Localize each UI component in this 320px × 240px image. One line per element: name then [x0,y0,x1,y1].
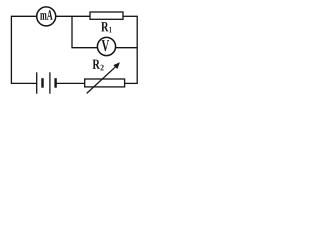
label R2 [93,60,104,71]
battery long plate 2 [49,72,51,93]
wire: bottom-right segment (R2 to right side) [125,82,137,84]
wire: left vertical side [10,16,12,84]
wire: top-middle segment (mA to R1) [56,15,90,17]
wire: voltmeter branch vertical drop from top node [71,16,73,47]
battery short thick plate 1 [41,78,43,88]
battery long plate 1 [36,72,38,93]
resistor R1 [90,12,123,19]
wire: bottom-left segment [11,82,36,84]
battery (two cells) [37,72,56,93]
rheostat R2 [85,79,125,87]
wire: voltmeter branch right horizontal [116,47,138,49]
voltmeter V [97,37,115,55]
wire: voltmeter branch left horizontal [71,47,97,49]
rheostat R2 arrow [87,62,120,93]
wire: top-right segment (R1 to right side) [123,15,137,17]
milliammeter mA [37,7,56,26]
wire: top-left segment [11,15,36,17]
label R1 [101,22,111,32]
battery short thick plate 2 [54,78,56,88]
wire: right vertical side [136,16,138,84]
wire: bottom-middle segment (battery to R2) [56,82,85,84]
